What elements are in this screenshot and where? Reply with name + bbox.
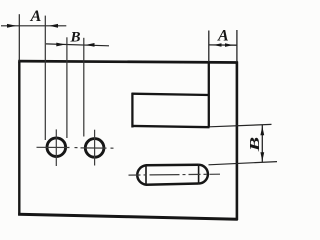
dim B right: lower extension line (slot top extended) xyxy=(209,162,278,165)
rectangle cutout bottom xyxy=(132,126,210,127)
dim B right: down arrow xyxy=(260,152,264,161)
dim B left: left arrow xyxy=(56,43,65,47)
dim A right: extension above step xyxy=(208,31,210,63)
dim A right: dimension line xyxy=(209,44,237,46)
slot centerline xyxy=(129,173,221,176)
dim B left: projection line at hole2 left xyxy=(83,38,85,137)
slot right tangent line xyxy=(198,165,200,184)
hole 2 vertical centerline xyxy=(94,130,96,166)
svg-text:A: A xyxy=(30,8,42,25)
hole 1 circle xyxy=(47,138,66,157)
svg-text:B: B xyxy=(248,137,263,153)
dim A left: extension / projection line at hole1 left xyxy=(44,16,46,140)
slot left arc xyxy=(137,165,146,184)
slot bottom edge xyxy=(146,184,199,185)
svg-text:B: B xyxy=(69,29,80,45)
rectangle cutout left xyxy=(131,93,133,128)
svg-text:A: A xyxy=(217,28,229,45)
part outline: bottom edge xyxy=(18,214,238,219)
dim A left: left arrow xyxy=(7,24,17,28)
dim A left: extension line at part left edge xyxy=(18,14,20,61)
dim B right: up arrow xyxy=(260,126,264,135)
slot right arc xyxy=(199,165,208,184)
dim B right: dimension line xyxy=(261,125,263,162)
step / rectangle right edge xyxy=(208,62,210,128)
dim B right: upper extension line (rect bottom extended) xyxy=(210,124,272,126)
hole 1 horizontal centerline xyxy=(37,146,80,148)
hole 1 vertical centerline xyxy=(55,129,57,166)
dim B left: projection line at hole1 right xyxy=(66,37,68,138)
part outline: right edge xyxy=(236,62,239,221)
part outline: left edge xyxy=(18,62,20,216)
dim A left: right arrow xyxy=(49,24,58,28)
dim A right: left arrow xyxy=(214,43,222,47)
slot top edge xyxy=(146,163,199,166)
slot left tangent line xyxy=(145,165,147,184)
dim B left: dimension line xyxy=(46,44,109,46)
rectangle cutout top xyxy=(132,94,210,95)
dim A left: dimension line xyxy=(1,25,66,27)
dim A right: right arrow xyxy=(225,43,233,47)
dim A right: extension above right edge xyxy=(236,30,238,62)
dim B left: right arrow xyxy=(86,43,95,47)
hole 2 horizontal centerline xyxy=(81,147,118,149)
part outline: top edge xyxy=(18,61,238,62)
hole 2 circle xyxy=(85,139,104,158)
